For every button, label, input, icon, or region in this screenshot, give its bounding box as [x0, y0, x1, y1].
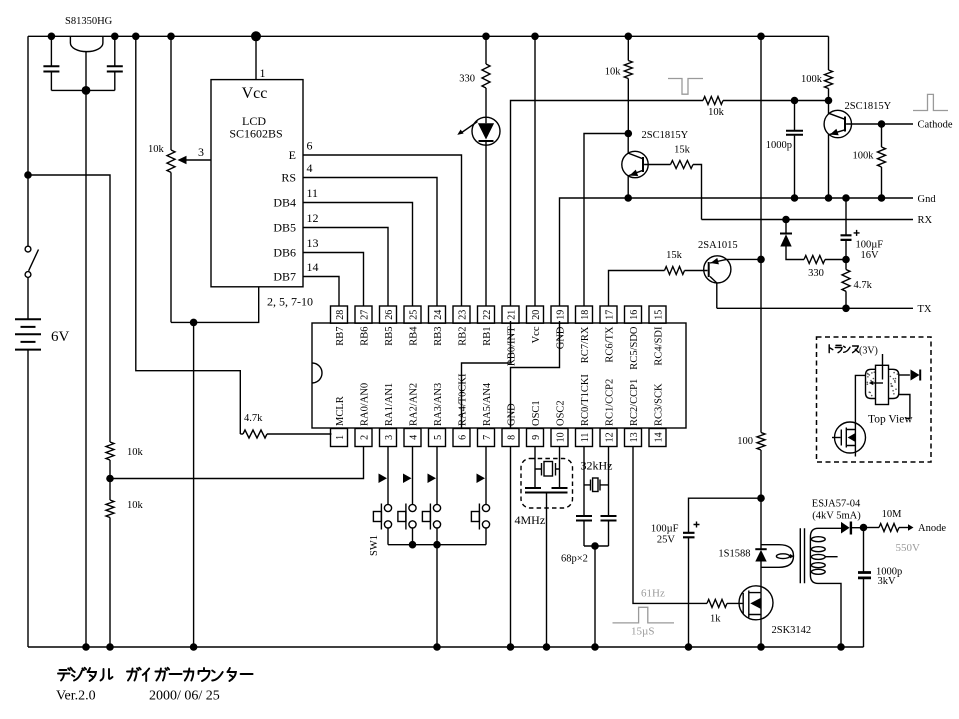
- node rail to 100k corner: [828, 36, 830, 70]
- U1 pin 6 RA4/T0CKI: [453, 373, 470, 447]
- node 330/100uF/4.7k: [842, 256, 850, 264]
- U1 pin 24 RB3: [429, 306, 446, 346]
- diode D3 1S1588: [718, 549, 766, 587]
- svg-text:18: 18: [580, 310, 591, 320]
- U1 pin 19 GND: [551, 306, 568, 349]
- crystal X2 32kHz: [581, 447, 613, 516]
- wire top +6V rail: [28, 35, 829, 37]
- wire MCLR pullup branch: [136, 36, 241, 434]
- wire LCD ground pins: [171, 287, 259, 323]
- switch S4 pin5: [422, 504, 440, 545]
- transformer top-view box: [817, 337, 932, 462]
- svg-text:23: 23: [458, 310, 469, 320]
- node sw common 2: [433, 541, 441, 549]
- resistor R5 10k: [605, 33, 633, 134]
- node rail-transformer column: [757, 33, 765, 41]
- svg-text:DB4: DB4: [273, 196, 296, 210]
- wire divider to RA0: [110, 447, 364, 479]
- svg-text:4: 4: [409, 435, 420, 440]
- wire bobbin right to diode: [899, 374, 910, 376]
- svg-text:100µF: 100µF: [856, 240, 884, 251]
- svg-text:10k: 10k: [127, 500, 144, 511]
- svg-text:DB5: DB5: [273, 221, 296, 235]
- node rail-LED branch: [482, 33, 490, 41]
- U1 pin 3 RA1/AN1: [380, 383, 397, 447]
- svg-text:OSC2: OSC2: [556, 400, 567, 426]
- node rail-pot: [167, 33, 175, 41]
- svg-text:10k: 10k: [127, 447, 144, 458]
- svg-text:RS: RS: [281, 171, 296, 185]
- svg-text:Cathode: Cathode: [918, 120, 953, 131]
- U1 pin 20 Vcc: [527, 306, 544, 343]
- node rail-divider: [106, 643, 114, 651]
- wire LCD DB5 to RB5: [303, 211, 388, 306]
- node 100k gnd: [878, 194, 886, 202]
- U1 pin 1 MCLR: [331, 396, 348, 446]
- label 61Hz: [641, 588, 665, 600]
- svg-text:7: 7: [482, 435, 493, 440]
- svg-text:32kHz: 32kHz: [581, 459, 613, 473]
- svg-text:14: 14: [654, 432, 665, 442]
- svg-text:RB5: RB5: [384, 327, 395, 346]
- svg-text:RA2/AN2: RA2/AN2: [409, 383, 420, 426]
- diode D2: [780, 220, 804, 260]
- U1 pin 21 RB0/INT: [502, 306, 519, 366]
- svg-text:12: 12: [605, 432, 616, 442]
- svg-text:68p×2: 68p×2: [561, 554, 588, 565]
- svg-text:SC1602BS: SC1602BS: [229, 127, 282, 141]
- svg-text:RC2/CCP1: RC2/CCP1: [629, 379, 640, 426]
- svg-text:RC1/CCP2: RC1/CCP2: [605, 379, 616, 426]
- wire LCD E to RB2: [303, 139, 462, 307]
- U1 pin 9 OSC1: [527, 400, 544, 446]
- svg-text:10: 10: [556, 432, 567, 442]
- label trans 3V: [829, 345, 878, 357]
- svg-text:3: 3: [198, 145, 204, 159]
- svg-text:RC7/RX: RC7/RX: [580, 326, 591, 363]
- label 15uS: [631, 626, 654, 638]
- wire capacitor ground bus: [51, 89, 114, 91]
- label 68p x2: [561, 554, 588, 565]
- svg-text:17: 17: [605, 310, 616, 320]
- node TX-4.7k: [842, 305, 850, 313]
- regulator U2 S81350HG: [65, 16, 113, 90]
- svg-text:1000p: 1000p: [766, 140, 792, 151]
- node 10k/100k/collector: [825, 97, 833, 105]
- svg-text:3: 3: [384, 435, 395, 440]
- svg-text:(3V): (3V): [859, 346, 878, 357]
- diode key S5 pin7: [477, 447, 487, 505]
- svg-text:RA4/T0CKI: RA4/T0CKI: [458, 373, 469, 426]
- wire internal GND19 to GND8: [511, 321, 560, 429]
- node regulator ground: [82, 86, 91, 95]
- diode D5 top view: [911, 370, 921, 381]
- wire LCD DB6 to RB6: [303, 236, 364, 306]
- svg-text:Vcc: Vcc: [531, 326, 542, 343]
- diode key S2 pin3: [379, 447, 389, 505]
- node T1 emitter gnd: [624, 194, 632, 202]
- LCD module SC1602BS: [211, 36, 313, 308]
- transformer T1 secondary: [810, 528, 844, 651]
- pulse symbol PWM: [613, 607, 675, 623]
- svg-text:RA3/AN3: RA3/AN3: [433, 383, 444, 426]
- svg-text:RC3/SCK: RC3/SCK: [654, 383, 665, 426]
- svg-text:E: E: [289, 148, 296, 162]
- wire RX line: [702, 215, 933, 226]
- svg-text:SW1: SW1: [369, 535, 380, 556]
- wire sw common to rail: [433, 545, 441, 651]
- U1 pin 11 RC0/T1CKI: [576, 374, 593, 447]
- svg-text:27: 27: [360, 310, 371, 320]
- wire battery positive column: [27, 36, 29, 246]
- svg-text:25V: 25V: [657, 535, 676, 546]
- svg-text:25: 25: [409, 310, 420, 320]
- node primary top: [757, 494, 765, 502]
- transistor Q2 2SC1815Y: [824, 101, 913, 199]
- svg-text:S81350HG: S81350HG: [65, 16, 113, 27]
- node rail-LCD Vcc: [251, 31, 261, 41]
- svg-text:22: 22: [482, 310, 493, 320]
- svg-text:DB7: DB7: [273, 270, 296, 284]
- potentiometer VR1 10k: [148, 36, 211, 322]
- svg-text:TX: TX: [918, 304, 932, 315]
- svg-text:28: 28: [335, 310, 346, 320]
- node rail-C1: [48, 33, 56, 41]
- transistor Q4 2SK3142 MOSFET: [739, 586, 811, 651]
- resistor R7 100k: [801, 70, 833, 101]
- wire +6V to transformer: [760, 36, 762, 432]
- transistor Q1 2SC1815Y: [622, 130, 689, 198]
- pulse symbol negative: [668, 79, 703, 95]
- wire LCD RS to RB3: [303, 161, 437, 306]
- svg-text:Top View: Top View: [868, 414, 913, 426]
- svg-text:2000/ 06/ 25: 2000/ 06/ 25: [149, 689, 220, 704]
- svg-text:2SA1015: 2SA1015: [698, 240, 738, 251]
- node gnd-100uF: [842, 194, 850, 202]
- resistor R9 330: [804, 256, 846, 280]
- svg-text:RC5/SDO: RC5/SDO: [629, 326, 640, 370]
- capacitor C7 100uF 25V: [651, 498, 761, 651]
- LED D1: [457, 117, 500, 306]
- node T2 emitter gnd: [825, 194, 833, 202]
- U1 pin 16 RC5/SDO: [625, 306, 642, 370]
- svg-text:9: 9: [531, 435, 542, 440]
- svg-text:6: 6: [307, 139, 313, 153]
- resistor R2 10k: [106, 479, 144, 648]
- svg-text:10k: 10k: [605, 67, 622, 78]
- svg-text:RA5/AN4: RA5/AN4: [482, 382, 493, 426]
- svg-text:26: 26: [384, 310, 395, 320]
- node emitter +6V: [757, 256, 765, 264]
- node rail-battery gnd: [82, 643, 90, 651]
- node rail-MCLR branch: [132, 33, 140, 41]
- svg-text:20: 20: [531, 310, 542, 320]
- label Cathode: [918, 120, 953, 131]
- U1 pin 15 RC4/SDI: [649, 306, 666, 366]
- U1 pin 25 RB4: [404, 306, 421, 346]
- node RX-diode: [782, 216, 790, 224]
- svg-text:RC0/T1CKI: RC0/T1CKI: [580, 374, 591, 426]
- svg-text:RB6: RB6: [360, 327, 371, 346]
- svg-text:6: 6: [458, 435, 469, 440]
- svg-text:MCLR: MCLR: [335, 396, 346, 426]
- svg-text:16: 16: [629, 310, 640, 320]
- node sw common 1: [409, 541, 417, 549]
- svg-text:330: 330: [808, 268, 824, 279]
- node cathode-100k: [878, 120, 886, 128]
- node rail-C2: [111, 33, 119, 41]
- diode key S3 pin4: [403, 447, 413, 505]
- svg-text:12: 12: [307, 211, 319, 225]
- svg-text:100: 100: [737, 436, 753, 447]
- wire bottom ground rail: [28, 646, 864, 648]
- U1 pin 2 RA0/AN0: [355, 383, 372, 447]
- microcontroller U1 PIC 28-pin body: [312, 323, 686, 428]
- resistor R4 330: [459, 36, 490, 117]
- svg-text:OSC1: OSC1: [531, 400, 542, 426]
- label SW1: [369, 535, 380, 556]
- svg-text:GND: GND: [507, 403, 518, 426]
- svg-text:15µS: 15µS: [631, 626, 654, 638]
- svg-text:4.7k: 4.7k: [854, 280, 873, 291]
- U1 pin 23 RB2: [453, 306, 470, 346]
- svg-text:100k: 100k: [853, 151, 875, 162]
- svg-text:2: 2: [360, 435, 371, 440]
- U1 pin 13 RC2/CCP1: [625, 379, 642, 447]
- diode key S4 pin5: [428, 447, 438, 505]
- svg-text:10M: 10M: [882, 509, 903, 520]
- U1 pin 5 RA3/AN3: [429, 383, 446, 447]
- svg-text:6V: 6V: [51, 329, 70, 345]
- transistor Q3 2SA1015: [698, 240, 761, 308]
- battery BT1 6V: [15, 319, 70, 647]
- capacitor C5 68p: [576, 516, 592, 546]
- capacitor C3 1000p: [766, 101, 803, 199]
- svg-text:100k: 100k: [801, 74, 823, 85]
- resistor R6 15k: [671, 145, 702, 220]
- wire 68p common: [584, 542, 609, 651]
- svg-text:2, 5, 7-10: 2, 5, 7-10: [267, 295, 313, 309]
- resistor R10 4.7k: [842, 260, 873, 309]
- wire LCD DB7 to RB7: [303, 260, 339, 306]
- U1 pin 18 RC7/RX: [576, 306, 593, 363]
- transformer T1 primary loop: [761, 545, 794, 568]
- svg-text:1k: 1k: [710, 614, 721, 625]
- crystal X1 4MHz block: [515, 447, 573, 651]
- node HV: [860, 524, 868, 532]
- svg-text:8: 8: [507, 435, 518, 440]
- transformer T1 core: [800, 528, 804, 583]
- resistor R1 10k: [106, 442, 144, 479]
- svg-text:4: 4: [307, 161, 313, 175]
- svg-text:15k: 15k: [674, 145, 691, 156]
- svg-text:21: 21: [507, 310, 518, 320]
- U1 pin 7 RA5/AN4: [478, 382, 495, 446]
- node rail-LCD gnd: [190, 643, 198, 651]
- resistor R14 10M: [864, 509, 947, 534]
- pulse symbol positive: [913, 94, 948, 110]
- node 1000p gnd: [791, 194, 799, 202]
- svg-text:15: 15: [654, 310, 665, 320]
- svg-text:100µF: 100µF: [651, 524, 679, 535]
- svg-text:Anode: Anode: [918, 523, 946, 534]
- resistor R11 15k: [665, 250, 708, 275]
- svg-text:RC4/SDI: RC4/SDI: [654, 326, 665, 366]
- svg-text:RX: RX: [918, 215, 933, 226]
- svg-text:RA0/AN0: RA0/AN0: [360, 383, 371, 426]
- resistor R8 100k: [853, 124, 886, 198]
- U1 pin 22 RB1: [478, 306, 495, 346]
- svg-text:19: 19: [556, 310, 567, 320]
- wire switch common: [388, 544, 486, 546]
- svg-text:11: 11: [307, 186, 319, 200]
- resistor R13 100: [737, 433, 765, 499]
- switch S5 pin7: [471, 504, 489, 545]
- svg-text:1: 1: [260, 66, 266, 80]
- U1 pin 10 OSC2: [551, 400, 568, 446]
- resistor R12 1k: [707, 599, 743, 624]
- wire branch to 10k divider: [28, 175, 110, 442]
- wire bobbin bottom lead: [899, 395, 910, 419]
- svg-text:550V: 550V: [896, 542, 921, 554]
- svg-text:Vcc: Vcc: [242, 85, 268, 102]
- svg-text:5: 5: [433, 435, 444, 440]
- svg-text:10k: 10k: [148, 144, 165, 155]
- node T1 collector: [625, 130, 633, 138]
- wire RC6 pin17 to 15k: [609, 271, 665, 307]
- label Top View: [868, 414, 913, 426]
- capacitor C6 68p: [601, 516, 617, 546]
- wire LCD DB4 to RB4: [303, 186, 413, 306]
- switch S3 pin4: [398, 504, 416, 545]
- transistor Q5 mosfet top view: [832, 422, 866, 457]
- svg-text:61Hz: 61Hz: [641, 588, 665, 600]
- U1 pin 8 GND: [502, 403, 519, 447]
- switch S1 power: [25, 246, 38, 319]
- wire ground rail Gnd: [560, 194, 937, 306]
- switch S2 pin3: [373, 504, 391, 545]
- wire TX line: [717, 304, 932, 315]
- U1 pin 26 RB5: [380, 306, 397, 346]
- svg-text:RC6/TX: RC6/TX: [605, 326, 616, 363]
- svg-text:1: 1: [335, 435, 346, 440]
- transformer bobbin top view: [866, 354, 899, 405]
- svg-text:11: 11: [580, 433, 591, 443]
- wire Vcc pin20: [531, 33, 539, 307]
- node LCD ground junction: [190, 319, 198, 327]
- svg-text:3kV: 3kV: [878, 576, 897, 587]
- svg-text:RA1/AN1: RA1/AN1: [384, 383, 395, 426]
- U1 pin 12 RC1/CCP2: [600, 379, 617, 447]
- svg-text:Ver.2.0: Ver.2.0: [56, 689, 96, 704]
- capacitor C4 100uF 16V: [841, 198, 884, 261]
- svg-text:13: 13: [629, 432, 640, 442]
- U1 pin 28 RB7: [331, 306, 348, 346]
- svg-text:RB3: RB3: [433, 327, 444, 346]
- svg-text:16V: 16V: [861, 250, 880, 261]
- svg-text:RB0/INT: RB0/INT: [507, 326, 518, 366]
- wire collector to RC7 pin18: [584, 134, 628, 307]
- wire regulator ground to bottom rail: [85, 90, 87, 647]
- svg-text:24: 24: [433, 310, 444, 320]
- wire RC2 pin13 PWM: [633, 447, 707, 604]
- wire LCD ground to bottom rail: [193, 322, 195, 647]
- svg-text:330: 330: [459, 74, 475, 85]
- svg-text:Gnd: Gnd: [918, 194, 937, 205]
- wire primary feed: [760, 498, 762, 549]
- capacitor C2: [107, 36, 123, 90]
- node battery branch: [24, 171, 32, 179]
- U1 pin 17 RC6/TX: [600, 306, 617, 363]
- svg-text:RB4: RB4: [409, 326, 420, 346]
- svg-text:2SK3142: 2SK3142: [772, 625, 812, 636]
- svg-text:2SC1815Y: 2SC1815Y: [642, 130, 689, 141]
- node 1000p top: [791, 97, 799, 105]
- svg-text:RB7: RB7: [335, 327, 346, 346]
- U1 pin 14 RC3/SCK: [649, 383, 666, 447]
- node R1-R2 divider: [106, 475, 114, 483]
- wire RB0 input line with 10k: [511, 97, 829, 307]
- svg-text:13: 13: [307, 236, 319, 250]
- capacitor C8 1000p 3kV: [858, 528, 902, 647]
- wire bobbin left to mosfet: [855, 375, 865, 422]
- svg-text:4MHz: 4MHz: [515, 513, 546, 527]
- svg-text:RB2: RB2: [458, 327, 469, 346]
- U1 pin 4 RA2/AN2: [404, 383, 421, 447]
- svg-text:10k: 10k: [708, 107, 725, 118]
- svg-text:GND: GND: [556, 326, 567, 349]
- svg-text:15k: 15k: [666, 250, 683, 261]
- svg-text:14: 14: [307, 260, 319, 274]
- wire internal RB0 to RA4: [462, 321, 511, 429]
- svg-text:RB1: RB1: [482, 327, 493, 346]
- capacitor C1: [43, 36, 59, 90]
- svg-text:4.7k: 4.7k: [244, 413, 263, 424]
- svg-text:ESJA57-04: ESJA57-04: [812, 499, 861, 510]
- label 550V: [896, 542, 921, 554]
- title digital geiger counter japanese: [58, 668, 253, 681]
- svg-text:(4kV 5mA): (4kV 5mA): [812, 511, 861, 522]
- U1 pin 27 RB6: [355, 306, 372, 346]
- diode D4 ESJA57-04: [812, 499, 864, 535]
- resistor R3 4.7k MCLR: [240, 413, 331, 438]
- svg-text:1S1588: 1S1588: [718, 549, 750, 560]
- svg-text:DB6: DB6: [273, 246, 296, 260]
- wire GND pin8 to rail: [507, 447, 515, 651]
- title version: [56, 689, 220, 704]
- svg-text:2SC1815Y: 2SC1815Y: [845, 101, 892, 112]
